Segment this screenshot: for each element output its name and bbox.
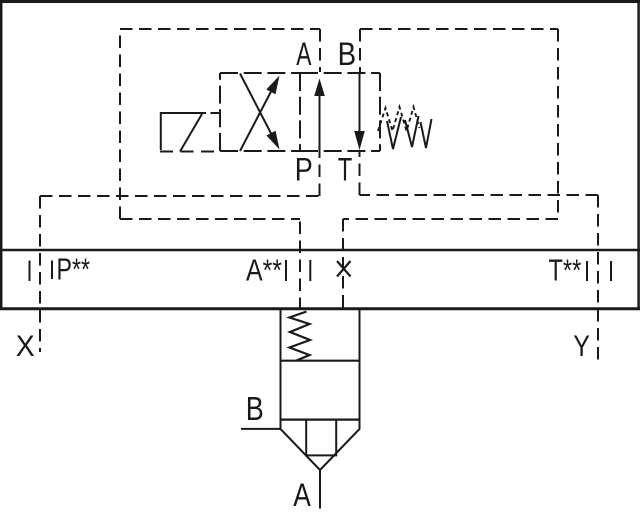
plugged drop line through band	[342, 219, 344, 310]
svg-text:A: A	[296, 36, 312, 72]
port A stub line	[319, 470, 321, 509]
pilot valve return spring solid chevrons	[387, 117, 401, 149]
pilot line X horizontal	[40, 195, 320, 197]
svg-text:A: A	[293, 477, 311, 513]
pilot valve frame left edge	[119, 29, 121, 219]
svg-text:P**: P**	[57, 253, 91, 287]
port B stub line	[241, 428, 281, 430]
straight arrow B-T	[359, 73, 361, 133]
pilot line Y vertical to port Y	[597, 195, 599, 360]
pilot line Y horizontal	[360, 194, 599, 196]
port tick T right	[610, 261, 612, 281]
svg-text:B: B	[246, 390, 264, 427]
manifold block left border	[0, 0, 2, 309]
pilot valve frame bottom edge right part	[343, 218, 558, 220]
cartridge body outline	[281, 310, 360, 470]
svg-text:Y: Y	[573, 330, 590, 363]
cartridge poppet seat box	[306, 420, 336, 456]
port tick T left	[586, 261, 588, 281]
port tick left inner	[51, 261, 53, 280]
valve position square right	[300, 73, 380, 151]
port band top line	[0, 249, 640, 252]
crossed arrow P-B	[240, 82, 276, 151]
pilot line X vertical to port X	[39, 196, 41, 352]
crossed arrow A-T	[240, 74, 276, 144]
pilot port B drop line	[359, 29, 361, 72]
port tick A right	[309, 260, 311, 281]
svg-text:P: P	[295, 151, 313, 187]
cartridge spring section divider	[281, 360, 360, 362]
pilot valve frame top edge left part	[120, 28, 320, 30]
port band bottom line	[0, 307, 640, 310]
pilot valve return spring dashed zigzag	[378, 107, 420, 131]
pilot line T leg	[359, 151, 361, 195]
manifold block right border	[637, 0, 640, 309]
manifold block top border	[0, 0, 640, 3]
straight arrow P-A	[319, 92, 321, 151]
svg-text:T**: T**	[549, 253, 582, 287]
pilot port A drop line	[319, 29, 321, 72]
pilot valve frame top edge right part	[360, 28, 558, 30]
plug cross	[337, 261, 351, 277]
pilot valve frame right edge	[557, 29, 559, 219]
node A** drop line through band	[299, 219, 301, 310]
svg-text:X: X	[16, 330, 35, 363]
pilot line P leg	[319, 151, 321, 196]
cartridge spring zigzag	[290, 312, 311, 361]
port tick A left	[285, 260, 287, 281]
svg-text:B: B	[338, 36, 357, 72]
solenoid box	[161, 113, 206, 150]
pilot valve frame bottom edge left part	[120, 218, 300, 220]
valve position square left (crossed)	[220, 73, 300, 151]
svg-text:A**: A**	[246, 253, 282, 287]
port tick left outer	[29, 261, 31, 282]
svg-text:T: T	[338, 151, 353, 187]
cartridge pilot section divider	[281, 419, 360, 421]
